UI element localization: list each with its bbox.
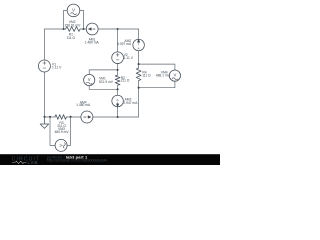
svg-text:8.397 mA: 8.397 mA xyxy=(117,42,132,46)
voltmeter VM4 xyxy=(169,70,180,81)
resistor R4 xyxy=(136,68,141,81)
footer banner xyxy=(0,154,220,165)
svg-text:480.9 mV: 480.9 mV xyxy=(54,130,69,134)
node top-R1-right xyxy=(82,28,84,30)
node top-V2 xyxy=(117,28,119,30)
svg-text:2.947 mA: 2.947 mA xyxy=(123,101,138,105)
svg-text:488.1 mV: 488.1 mV xyxy=(156,73,171,77)
node VM3-left xyxy=(49,116,51,118)
node VM4-bottom xyxy=(138,87,140,89)
node VM1-top xyxy=(117,69,119,71)
wire bottom rail left xyxy=(45,116,56,118)
wire VM2 loop xyxy=(64,10,84,29)
node ground xyxy=(43,116,45,118)
svg-text:211 Ω: 211 Ω xyxy=(121,79,130,83)
svg-text:http://circuitlab.com/c/3889d0: http://circuitlab.com/c/3889d0da5q34k xyxy=(47,159,108,163)
svg-text:1.11 V: 1.11 V xyxy=(52,66,62,70)
ammeter AM4 xyxy=(81,111,93,123)
voltmeter VM1 xyxy=(84,74,95,85)
resistor R3 xyxy=(55,115,66,120)
node bottom-AM3 xyxy=(117,116,119,118)
logo squiggle LAB xyxy=(12,161,27,163)
ammeter AM1 xyxy=(86,23,98,35)
voltmeter VM2 xyxy=(67,4,80,17)
wire VM4 loop xyxy=(139,64,175,88)
resistor R2 xyxy=(115,75,120,85)
node VM1-bottom xyxy=(117,88,119,90)
svg-text:V: V xyxy=(88,77,91,82)
svg-text:111 Ω: 111 Ω xyxy=(142,73,151,77)
wire bottom rail right xyxy=(66,116,138,118)
svg-text:1.460 mA: 1.460 mA xyxy=(76,103,91,107)
wire middle rail xyxy=(117,29,119,75)
svg-text:V: V xyxy=(72,8,75,13)
wire VM1 loop xyxy=(89,70,117,89)
node VM4-top xyxy=(138,63,140,65)
svg-text:V: V xyxy=(174,73,177,78)
voltage source V1 xyxy=(38,60,50,72)
ammeter AM3 xyxy=(112,95,124,107)
svg-text:1.11 V: 1.11 V xyxy=(124,56,134,60)
wire left rail xyxy=(44,29,46,117)
ground xyxy=(40,117,49,128)
voltmeter VM3 xyxy=(55,139,67,151)
wire middle rail lower xyxy=(117,85,119,117)
svg-text:111 Ω: 111 Ω xyxy=(67,36,76,40)
resistor R1 xyxy=(66,27,80,32)
svg-text:921.9 mV: 921.9 mV xyxy=(99,80,114,84)
wire VM3 loop xyxy=(50,117,71,146)
node top-R1-left xyxy=(63,28,65,30)
wire top rail right xyxy=(80,28,138,30)
voltage source V2 xyxy=(112,52,124,64)
wire top rail left xyxy=(45,28,66,30)
svg-text:LAB: LAB xyxy=(28,160,39,165)
svg-text:V: V xyxy=(58,144,63,147)
ammeter AM2 xyxy=(133,39,145,51)
node VM3-right xyxy=(70,116,72,118)
svg-text:158.91 mV: 158.91 mV xyxy=(64,24,81,28)
svg-text:1.460 mA: 1.460 mA xyxy=(85,40,100,44)
wire right rail lower xyxy=(138,81,140,118)
wire right rail xyxy=(138,29,140,68)
